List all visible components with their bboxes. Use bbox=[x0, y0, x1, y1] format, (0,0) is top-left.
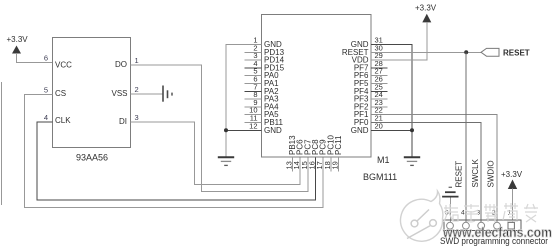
wire CLK net (U2 pin4 to M1 pin16 PC8) bbox=[37, 122, 316, 200]
wire CS net (U2 pin5 to M1 pin17 PC9) bbox=[25, 95, 324, 208]
eeprom U2 93AA56 bbox=[52, 38, 130, 163]
pin 23 stub PF2 bbox=[371, 106, 387, 108]
svg-text:1: 1 bbox=[135, 56, 139, 65]
bottom pin names (vertical) bbox=[288, 134, 343, 155]
pin 5 stub PA0 bbox=[244, 75, 261, 77]
svg-text:+3.3V: +3.3V bbox=[415, 4, 437, 13]
pin 18 stub PC10 bbox=[330, 157, 332, 172]
svg-text:CS: CS bbox=[55, 89, 66, 98]
svg-text:6: 6 bbox=[44, 53, 48, 62]
pin 25 stub PF4 bbox=[371, 90, 387, 92]
svg-text:3: 3 bbox=[135, 113, 139, 122]
svg-text:RESET: RESET bbox=[455, 161, 464, 188]
node GND junction (412,130.3) bbox=[410, 128, 414, 132]
svg-text:5: 5 bbox=[44, 86, 48, 95]
svg-text:VCC: VCC bbox=[55, 61, 72, 70]
wire GND bus pins 1+12 to ground bbox=[226, 45, 262, 157]
svg-text:12: 12 bbox=[249, 121, 257, 130]
pin 4 stub PD15 bbox=[244, 67, 261, 69]
pin 10 stub PA5 bbox=[244, 114, 261, 116]
svg-text:GND: GND bbox=[264, 126, 282, 135]
bottom pin numbers 13-19 (vertical) bbox=[284, 161, 339, 169]
svg-text:www.elecfans.com: www.elecfans.com bbox=[442, 224, 552, 240]
wire +3.3V to VCC pin 6 bbox=[17, 53, 53, 62]
svg-text:GND: GND bbox=[351, 126, 369, 135]
wire ground to connector pin 5 bbox=[449, 198, 451, 223]
pin 26 stub PF5 bbox=[371, 83, 387, 85]
mcu module M1 BGM111 bbox=[262, 15, 398, 182]
pin 2 stub PD13 bbox=[244, 51, 261, 53]
svg-text:SWCLK: SWCLK bbox=[471, 158, 480, 187]
pin 24 stub PF3 bbox=[371, 98, 387, 100]
wire GND pin 31 to right ground bus bbox=[371, 45, 412, 157]
pin 11 stub PB11 bbox=[244, 122, 261, 124]
svg-text:DO: DO bbox=[115, 60, 127, 69]
wire VDD pin 29 to +3.3V bbox=[371, 22, 427, 60]
svg-text:4: 4 bbox=[461, 210, 465, 217]
pin 28 stub PF7 bbox=[371, 67, 387, 69]
wire PF0 pin 21 to SWCLK column bbox=[371, 123, 481, 223]
wire RESET pin 30 to tag bbox=[371, 51, 481, 53]
svg-text:RESET: RESET bbox=[503, 49, 530, 58]
svg-text:VSS: VSS bbox=[111, 89, 127, 98]
svg-text:+3.3V: +3.3V bbox=[7, 35, 29, 44]
svg-text:19: 19 bbox=[331, 161, 340, 169]
wire GND pin 12 bbox=[226, 129, 262, 131]
svg-text:4: 4 bbox=[44, 113, 48, 122]
svg-text:BGM111: BGM111 bbox=[363, 172, 397, 182]
left pin names bbox=[264, 40, 285, 135]
connector J1 SWD header bbox=[444, 220, 521, 231]
node GND junction (226,130.3) bbox=[224, 128, 228, 132]
pin 3 stub PD14 bbox=[244, 59, 261, 61]
wire GND pin 20 bbox=[371, 129, 412, 131]
pin 19 stub PC11 bbox=[338, 157, 340, 172]
power +3.3V supply (top left) bbox=[7, 35, 29, 54]
svg-text:M1: M1 bbox=[377, 155, 390, 165]
svg-text:93AA56: 93AA56 bbox=[76, 152, 108, 162]
svg-text:SWDIO: SWDIO bbox=[487, 160, 496, 187]
pin 8 stub PA3 bbox=[244, 98, 261, 100]
wire PF1 pin 22 to SWDIO column bbox=[371, 115, 497, 222]
right pin numbers 31-20 bbox=[375, 36, 383, 131]
pin 27 stub PF6 bbox=[371, 75, 387, 77]
pin 7 stub PA2 bbox=[244, 90, 261, 92]
left pin numbers 1-12 bbox=[249, 36, 257, 131]
svg-text:PC11: PC11 bbox=[334, 135, 343, 155]
pin 13 stub PB13 bbox=[291, 157, 293, 172]
wire DI net (U2 pin3 to M1 pin14 PC6) bbox=[131, 122, 301, 184]
right pin names bbox=[342, 40, 369, 135]
wire +3.3V to connector pin 1 bbox=[512, 189, 514, 223]
ground (SWD, inverted) bbox=[442, 187, 458, 196]
power +3.3V (top right, VDD) bbox=[415, 4, 437, 23]
pin 9 stub PA4 bbox=[244, 106, 261, 108]
wire DO net (U2 pin1 to M1 pin15 PC7) bbox=[131, 65, 308, 191]
svg-text:DI: DI bbox=[119, 117, 127, 126]
connector tag RESET bbox=[481, 48, 530, 57]
power +3.3V (SWD connector) bbox=[501, 170, 523, 189]
ground (right GND bus) bbox=[404, 157, 420, 165]
svg-text:2: 2 bbox=[135, 85, 139, 94]
dangling wire at left edge (cropped) bbox=[1, 82, 3, 205]
svg-text:+3.3V: +3.3V bbox=[501, 170, 523, 179]
pin 6 stub PA1 bbox=[244, 83, 261, 85]
node RESET junction (466.2,52.3) bbox=[464, 50, 468, 54]
svg-text:CLK: CLK bbox=[55, 116, 71, 125]
wire RESET column down to connector bbox=[465, 52, 467, 222]
ground VSS (rotated right) bbox=[163, 86, 172, 102]
connector pin numbers 5 4 3 2 1 bbox=[445, 210, 512, 217]
ground (left GND bus) bbox=[218, 157, 234, 165]
wire VSS pin2 to ground bbox=[131, 93, 163, 95]
